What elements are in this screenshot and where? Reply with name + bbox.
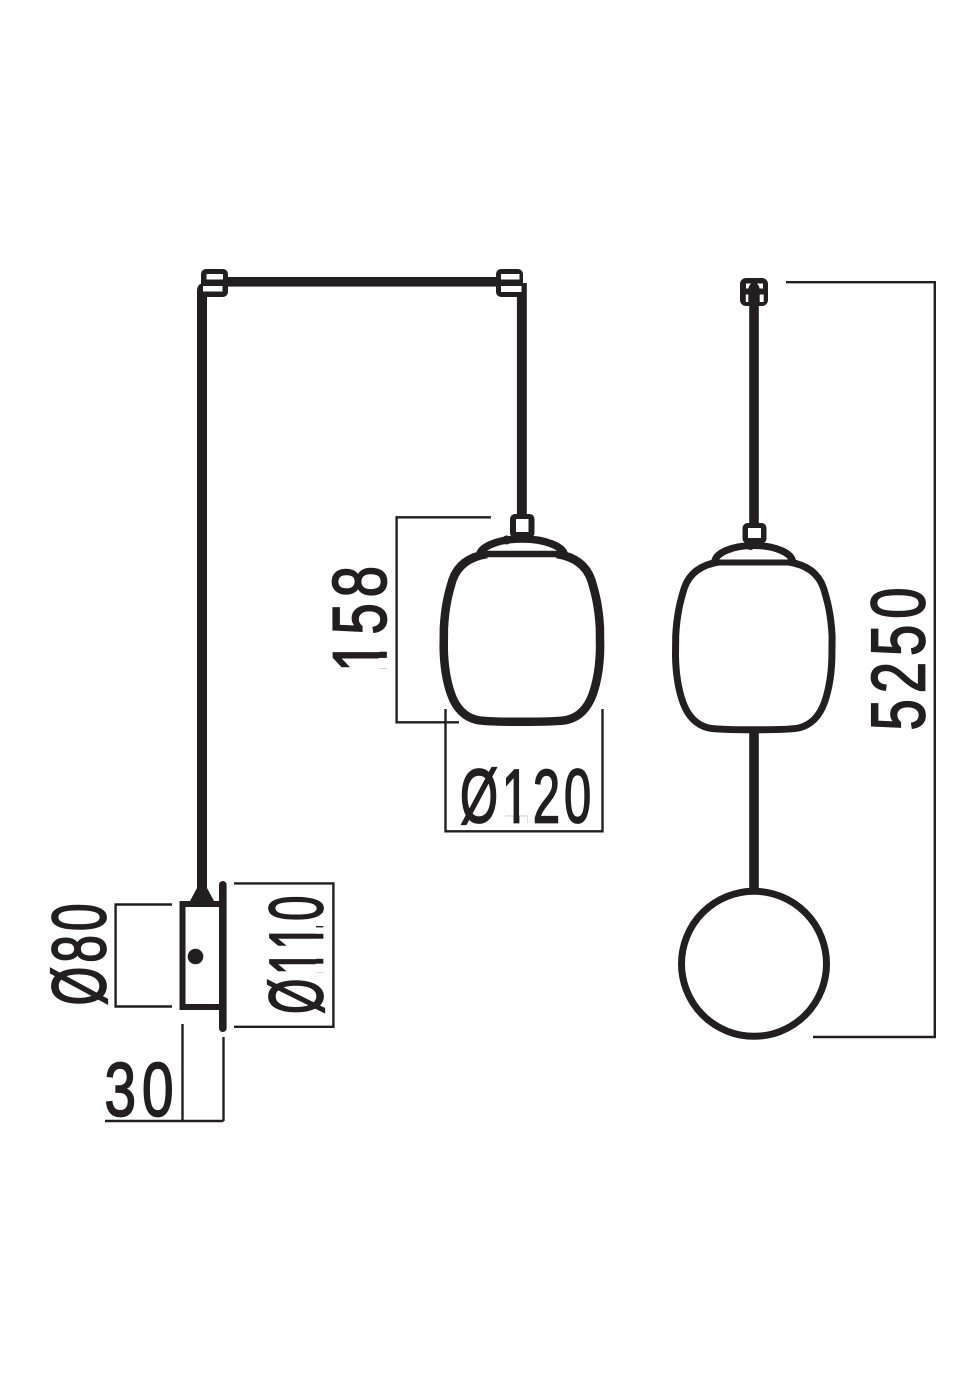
shade dome cap (left figure) <box>480 539 565 556</box>
dome nub (right figure) <box>747 542 755 550</box>
mount white square right <box>758 295 764 303</box>
dimension bracket Ø120 <box>446 709 603 831</box>
wire: upper cable (right figure) <box>749 306 759 523</box>
wire: left vertical cable from hook to wall bracket <box>197 283 207 901</box>
wall bracket screw dot <box>188 949 204 965</box>
white patches to remove "1" foot serifs (match DIN-style footless 1) <box>379 642 389 651</box>
dimension line 5250 <box>786 282 935 1037</box>
dimension lines 30 <box>105 1024 224 1121</box>
svg-text:Ø120: Ø120 <box>460 755 595 840</box>
dimension bracket 158 <box>397 517 491 722</box>
dome nub left of connector <box>502 536 511 545</box>
mount white square left <box>746 295 752 303</box>
wall bracket body interior <box>186 907 220 1004</box>
cable connector block above shade (left figure) <box>510 514 535 538</box>
ceiling hook right slot upper <box>501 274 520 280</box>
shade shoulder rim line (right figure) <box>715 560 792 566</box>
connector white center (right figure) <box>748 528 761 538</box>
shade body (right figure) <box>676 562 833 730</box>
shade body (left figure) <box>444 554 600 722</box>
ceiling hook left block <box>201 269 228 297</box>
wire: top horizontal cable bar (left figure) <box>202 277 521 287</box>
wire: lower cable to sphere (right figure) <box>749 729 759 893</box>
ceiling hook left slot lower <box>203 286 223 292</box>
mount cable hump <box>748 283 759 298</box>
wire: right vertical cable from hook to shade connector <box>517 283 527 516</box>
ceiling hook right slot lower <box>501 286 522 292</box>
svg-text:Ø80: Ø80 <box>38 900 123 1006</box>
dimension bracket Ø110 <box>234 883 333 1026</box>
svg-text:5250: 5250 <box>857 582 942 731</box>
sphere globe (right figure) <box>682 891 827 1036</box>
connector white center <box>516 519 529 532</box>
ceiling hook right block <box>496 269 523 297</box>
cable connector block (right figure) <box>743 523 767 544</box>
dimension bracket Ø80 <box>116 905 172 1007</box>
ceiling mount block (right figure) <box>740 278 768 306</box>
wall bracket body <box>180 901 220 1010</box>
wall bracket back plate <box>219 881 227 1032</box>
cable strain relief flare <box>190 888 214 901</box>
svg-text:158: 158 <box>318 560 403 672</box>
svg-text:Ø110: Ø110 <box>255 892 340 1014</box>
shade dome cap (right figure) <box>715 546 793 563</box>
mount slot white <box>746 284 763 289</box>
svg-text:30: 30 <box>105 1048 180 1133</box>
shade shoulder rim line (left figure) <box>484 551 561 558</box>
ceiling hook left slot upper <box>207 274 224 280</box>
